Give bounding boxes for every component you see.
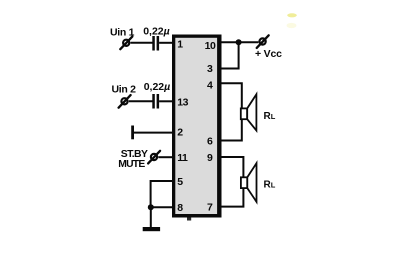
svg-text:2: 2 — [177, 127, 183, 139]
wire C2 to pin 13 — [159, 100, 174, 102]
input terminal J2 (Uin 2) — [119, 95, 131, 108]
svg-text:6: 6 — [207, 136, 213, 148]
capacitor C1 — [152, 36, 159, 51]
input terminal J1 (Uin 1) — [120, 37, 132, 50]
svg-text:13: 13 — [177, 96, 188, 108]
wire Uin2 terminal to C2 — [129, 100, 153, 102]
svg-text:MUTE: MUTE — [118, 159, 145, 170]
open terminal bar at pin 2 — [131, 126, 134, 140]
svg-text:11: 11 — [177, 152, 188, 164]
svg-text:RL: RL — [264, 180, 276, 191]
junction pin5/pin8 — [148, 204, 154, 210]
wire speaker 1 to pin 6 — [219, 120, 242, 141]
capacitor C2 — [152, 94, 159, 109]
node Vcc junction — [236, 39, 242, 45]
svg-text:0,22µ: 0,22µ — [143, 25, 170, 37]
wire pin 4 to speaker 1 — [219, 83, 242, 108]
svg-text:3: 3 — [207, 63, 213, 75]
scan artifact yellow smudge — [287, 13, 297, 28]
wire ST.BY terminal to pin 11 — [158, 156, 174, 158]
IC bottom tab stub — [187, 218, 191, 221]
svg-text:10: 10 — [205, 40, 216, 52]
ground — [143, 227, 160, 231]
wire junction down to pin 3 — [219, 42, 239, 68]
wire pin 10 to Vcc terminal — [219, 41, 258, 43]
wire pin 2 — [133, 132, 174, 134]
speaker LS2 — [241, 163, 257, 202]
svg-text:7: 7 — [207, 202, 213, 214]
svg-text:8: 8 — [177, 202, 183, 214]
wire junction to ground — [150, 207, 152, 228]
wire pin 5 — [151, 181, 174, 207]
svg-text:4: 4 — [207, 79, 213, 91]
terminal + Vcc — [257, 35, 269, 48]
op-amp IC U1 body — [172, 35, 222, 218]
wire Uin1 terminal to C1 — [131, 42, 153, 44]
wire pin 8 — [151, 206, 174, 208]
svg-text:1: 1 — [177, 39, 183, 51]
svg-text:+ Vcc: + Vcc — [255, 48, 282, 60]
input terminal ST.BY/MUTE — [148, 151, 160, 164]
svg-text:Uin 2: Uin 2 — [112, 84, 137, 96]
speaker LS1 — [241, 94, 257, 130]
svg-text:9: 9 — [207, 152, 213, 164]
svg-text:0,22µ: 0,22µ — [144, 81, 171, 93]
wire pin 9 to speaker 2 — [219, 157, 243, 177]
wire speaker 2 to pin 7 — [219, 188, 243, 206]
svg-text:RL: RL — [264, 111, 276, 122]
wire C1 to pin 1 — [159, 42, 174, 44]
svg-text:5: 5 — [177, 176, 183, 188]
